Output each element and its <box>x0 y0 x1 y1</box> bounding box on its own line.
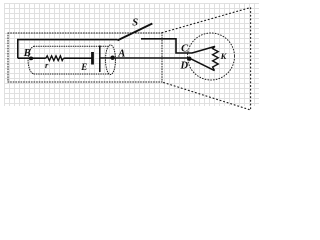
node B dot <box>29 57 34 61</box>
wire: bottom main B to resistor <box>18 57 46 59</box>
wire: resistor to battery short plate <box>64 57 92 59</box>
battery short thick plate <box>91 52 94 65</box>
node D dot <box>187 57 191 61</box>
svg-text:E: E <box>80 62 87 72</box>
battery long thin plate <box>99 46 101 73</box>
dotted circle around filament K <box>188 33 235 80</box>
filament K zigzag <box>213 46 219 70</box>
resistor r zigzag <box>46 56 64 61</box>
node A dot <box>110 56 114 60</box>
svg-text:B: B <box>23 48 31 59</box>
tube funnel envelope (dotted) <box>162 8 251 111</box>
cylinder left end arc <box>28 46 34 74</box>
svg-text:A: A <box>117 48 125 59</box>
wire: C lead to filament top <box>192 46 215 53</box>
wire: switch fixed contact to step-down and to C <box>141 39 192 53</box>
dashed enclosure rectangle (tube base) <box>8 33 162 82</box>
svg-text:D: D <box>180 61 189 72</box>
svg-text:C: C <box>181 43 189 54</box>
switch S blade (open) <box>118 24 153 41</box>
svg-text:S: S <box>132 17 138 28</box>
wire: left vertical and top horizontal to switch pivot <box>18 40 118 59</box>
wire: D lead to filament bottom <box>190 58 215 70</box>
cylinder right end ellipse <box>106 45 116 75</box>
dotted cylinder (battery cell) around r and E : top line <box>34 45 109 47</box>
wire: battery to A to D <box>100 57 190 59</box>
cylinder bottom line <box>34 73 109 75</box>
